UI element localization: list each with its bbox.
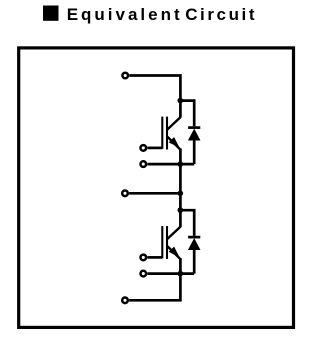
wire: G1 to gate bar [147,147,162,150]
terminal E2 (bottom) [122,298,128,304]
transistor Q1 gate bar [161,117,163,149]
transistor Q2 gate bar [161,226,163,258]
transistor Q2 collector lead [167,227,180,240]
node C2-diode junction [178,207,184,213]
wire: diode D2 branch top [180,210,194,236]
terminal E1 (aux emitter) [141,161,147,167]
diode D2 cathode bar [188,236,200,239]
wire: main line Q1 emitter to Q2 collector [179,149,182,228]
wire: G2 to gate bar [147,256,162,259]
terminal C1 (top) [122,73,128,79]
terminal E2 (aux emitter) [141,271,147,277]
transistor Q1 emitter arrow [169,137,180,148]
transistor Q1 body bar [166,117,168,150]
transistor Q2 emitter arrow [169,247,180,258]
terminal C2E1 (midpoint) [122,191,128,197]
wire: midpoint terminal to main line [129,192,180,195]
transistor Q2 body bar [166,226,168,259]
svg-text:Equivalent: Equivalent [67,5,183,24]
node E1 junction [178,161,184,167]
wire: main line Q2 emitter to bottom [129,258,180,300]
transistor Q1 emitter lead [167,136,180,149]
terminal G1 [141,145,147,151]
terminal G2 [141,255,147,261]
wire: emitter rail Q1 [147,163,194,166]
diode D1 cathode bar [188,126,200,129]
diode D2 triangle [188,238,201,250]
wire: top terminal to main line [129,76,180,118]
wire: diode D2 branch bottom [193,249,196,274]
wire: diode D1 branch bottom [193,140,196,165]
transistor Q2 emitter lead [167,246,180,259]
wire: emitter rail Q2 [147,272,194,275]
title bullet square [43,6,59,21]
node midpoint junction [178,191,184,197]
svg-text:Circuit: Circuit [185,5,257,24]
node C1-diode junction [178,98,184,104]
outer border frame [19,48,294,328]
wire: diode D1 branch top [180,101,194,127]
transistor Q1 collector lead [167,117,180,130]
diode D1 triangle [188,129,201,141]
node E2 junction [178,271,184,277]
